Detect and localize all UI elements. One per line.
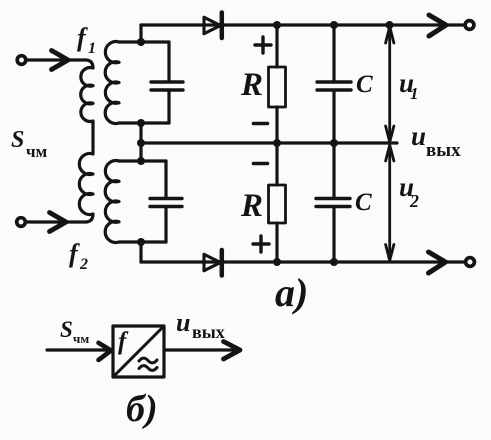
tank1 top wire	[119, 40, 169, 43]
svg-text:2: 2	[409, 191, 419, 211]
diode VD1	[204, 17, 221, 33]
output terminal upper	[465, 21, 474, 30]
node middle rail C column	[330, 139, 338, 147]
wire tank2 to bottom rail	[139, 242, 142, 262]
node tank1 top	[137, 38, 145, 46]
arrow on input wire lower	[50, 213, 67, 232]
svg-text:R: R	[240, 67, 263, 103]
label R upper	[240, 67, 263, 103]
svg-text:f: f	[69, 239, 80, 268]
wire input lower	[27, 220, 86, 223]
measurement arrow u1	[388, 27, 391, 141]
svg-text:б): б)	[126, 388, 158, 430]
secondary coil upper	[105, 42, 119, 124]
svg-text:S: S	[60, 317, 73, 342]
output arrow lower	[429, 252, 446, 273]
input terminal lower	[17, 218, 26, 227]
block diagram output arrow	[224, 342, 241, 360]
label C lower	[355, 189, 372, 216]
transformer primary winding	[79, 60, 93, 222]
label S_chm block	[60, 317, 89, 346]
svg-text:R: R	[240, 188, 263, 224]
label R lower	[240, 188, 263, 224]
svg-text:C: C	[355, 189, 372, 216]
secondary coil lower	[105, 161, 119, 243]
label S_chm	[11, 127, 48, 161]
input terminal upper	[17, 56, 26, 65]
label u_vyh circuit	[411, 121, 461, 161]
tank1 bottom wire	[119, 121, 169, 124]
capacitor C lower	[332, 143, 335, 197]
label C upper	[356, 71, 373, 98]
node middle rail left	[137, 139, 145, 147]
label b)	[126, 388, 158, 430]
resistor R lower	[275, 143, 278, 185]
block f converter U1	[113, 326, 164, 377]
wire top rail to tank1	[139, 25, 142, 42]
svg-text:u: u	[176, 308, 190, 337]
node middle rail R column	[273, 139, 281, 147]
label f2	[69, 239, 88, 273]
middle rail	[141, 141, 397, 144]
svg-text:вых: вых	[192, 322, 225, 342]
svg-text:1: 1	[410, 84, 419, 103]
node tank1 bottom	[137, 119, 145, 127]
output arrow upper	[429, 15, 446, 36]
label plus upper	[255, 37, 271, 53]
diode VD2	[204, 254, 221, 270]
svg-text:чм: чм	[26, 142, 48, 161]
approx symbol in block	[139, 358, 157, 363]
label u2	[399, 172, 419, 211]
node top rail u1 arrow	[386, 21, 394, 29]
svg-text:вых: вых	[426, 140, 461, 161]
top rail	[141, 23, 464, 26]
block diagram input arrow	[99, 343, 112, 360]
label minus upper	[254, 122, 268, 126]
svg-text:а): а)	[275, 270, 308, 315]
svg-text:f: f	[77, 23, 88, 52]
svg-text:1: 1	[88, 40, 96, 57]
measurement arrow u2	[388, 146, 391, 260]
label minus lower	[254, 162, 268, 166]
node tank2 top	[137, 157, 145, 165]
tank2 capacitor	[164, 161, 167, 197]
svg-text:u: u	[411, 121, 426, 151]
node tank2 bottom	[137, 238, 145, 246]
node bottom rail C column	[330, 258, 338, 266]
node bottom rail R column	[273, 258, 281, 266]
block diagram output wire	[164, 348, 240, 351]
tank2 bottom wire	[119, 240, 166, 243]
svg-text:2: 2	[79, 256, 88, 273]
node top rail R column	[273, 21, 281, 29]
svg-text:S: S	[11, 127, 24, 153]
label u_vyh block	[176, 308, 225, 342]
node top rail C column	[330, 21, 338, 29]
output terminal lower	[466, 258, 475, 267]
wire tank1 to middle rail	[139, 123, 142, 143]
tank2 top wire	[119, 159, 166, 162]
tank1 capacitor	[167, 42, 170, 81]
wire middle rail to tank2	[139, 143, 142, 161]
wire input upper	[27, 58, 86, 61]
svg-text:f: f	[118, 328, 129, 355]
bottom rail	[141, 260, 464, 263]
label u1	[399, 68, 419, 103]
svg-text:C: C	[356, 71, 373, 98]
block diagram input wire	[47, 348, 110, 351]
resistor R upper	[275, 25, 278, 67]
label a)	[275, 270, 308, 315]
svg-text:чм: чм	[73, 331, 89, 346]
arrow on input wire upper	[52, 51, 69, 70]
label plus lower	[253, 236, 269, 252]
label f1	[77, 23, 96, 57]
capacitor C upper	[332, 25, 335, 81]
